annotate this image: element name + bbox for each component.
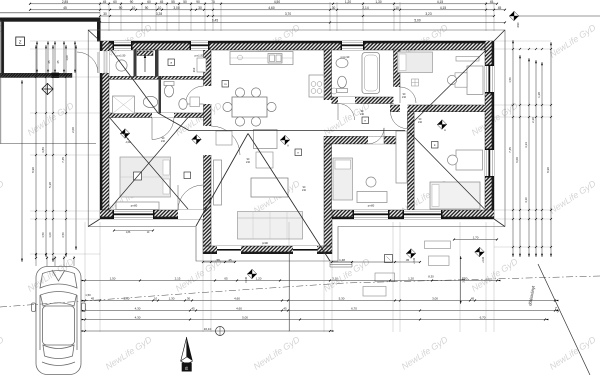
svg-text:8,30: 8,30	[428, 275, 434, 279]
svg-text:16,10: 16,10	[204, 327, 212, 331]
svg-text:4,10: 4,10	[524, 197, 528, 203]
svg-text:210: 210	[402, 96, 407, 99]
svg-text:65: 65	[224, 277, 228, 281]
top bath toilet	[338, 76, 347, 88]
bottom dim row 1	[85, 280, 497, 282]
interior wall right rooms divider W9	[408, 105, 487, 112]
window bottom-left wide	[114, 210, 153, 219]
svg-text:45: 45	[63, 6, 67, 10]
bedroom center-bottom desk	[357, 192, 387, 203]
roof line vestibule diagonal	[111, 50, 158, 113]
yard fence line below carport	[0, 143, 96, 145]
roof eave outline	[88, 30, 505, 261]
svg-text:50: 50	[183, 0, 187, 4]
center bathroom bottom wall W6b	[332, 97, 394, 104]
svg-text:45: 45	[47, 60, 51, 64]
porch gable left slope	[196, 134, 248, 227]
svg-text:45: 45	[56, 60, 60, 64]
roof eave corner diagonal top-left	[88, 30, 100, 41]
dining chairs	[235, 88, 244, 97]
svg-text:4,15: 4,15	[437, 0, 443, 4]
carport top wall	[0, 18, 100, 22]
top bath washbasin	[336, 58, 348, 68]
interior wall dining right / bath left upper	[324, 50, 332, 100]
svg-text:1,50: 1,50	[462, 277, 468, 281]
svg-text:3,86: 3,86	[41, 147, 45, 153]
svg-text:Ø10: Ø10	[193, 67, 196, 72]
svg-text:3,00: 3,00	[432, 297, 438, 301]
window top wall 1	[114, 41, 131, 50]
bedroom top-right desk	[455, 73, 467, 87]
svg-text:90: 90	[196, 0, 200, 4]
svg-text:+0,00: +0,00	[482, 256, 485, 263]
svg-text:É: É	[185, 365, 188, 371]
carport eave line	[0, 12, 100, 14]
bedroom bottom-right bed	[430, 182, 480, 209]
exterior wall bottom-right segment	[331, 210, 494, 219]
bedroom top-right bed	[398, 52, 433, 73]
svg-text:1,50: 1,50	[110, 277, 116, 281]
svg-text:pm1,90: pm1,90	[195, 54, 204, 58]
closet arrow	[144, 54, 146, 72]
vestibule washbasin	[116, 60, 127, 71]
dim 1,70 right	[454, 239, 497, 241]
svg-text:3,50: 3,50	[61, 232, 65, 238]
svg-text:30: 30	[332, 6, 336, 10]
bottom witness lines	[84, 222, 86, 332]
north arrow	[181, 337, 187, 361]
bedroom top-right grid box	[412, 79, 419, 86]
closet top block	[137, 51, 153, 56]
survey marker hall	[192, 135, 202, 145]
svg-text:pm1,90: pm1,90	[117, 54, 126, 58]
wc room shelf	[197, 58, 206, 72]
hall box symbol	[184, 172, 191, 179]
interior wall hall/dining upper	[204, 50, 212, 86]
svg-text:210: 210	[161, 140, 166, 143]
exterior wall top	[100, 41, 494, 50]
interior wall lower divider W8b	[408, 112, 415, 211]
svg-text:3,28: 3,28	[156, 12, 162, 16]
porch wall bottom	[203, 246, 332, 254]
dim 3,50 vertical right terrace	[460, 256, 462, 304]
svg-text:1,20: 1,20	[408, 277, 414, 281]
interior wall vestibule bottom	[109, 76, 204, 79]
svg-text:6,70: 6,70	[480, 316, 486, 320]
center bedroom wardrobe	[396, 131, 407, 183]
svg-text:4,50: 4,50	[274, 0, 280, 4]
kitchen sink	[268, 54, 282, 64]
porch wall left	[203, 210, 211, 254]
plot boundary bottom-right	[538, 264, 590, 375]
svg-text:3,70: 3,70	[285, 12, 291, 16]
roof eave corner diagonal top-right	[494, 30, 505, 41]
svg-text:10: 10	[395, 6, 399, 10]
bottom dim row 5	[85, 330, 330, 332]
Z marker box	[16, 37, 25, 46]
door arc right divider	[391, 112, 408, 129]
window bottom-right 1	[354, 210, 388, 219]
bedroom top-right chair	[447, 75, 456, 84]
dining table	[232, 97, 267, 117]
svg-text:55: 55	[171, 0, 175, 4]
kitchen stove circles	[311, 82, 316, 87]
svg-text:5,30: 5,30	[339, 297, 345, 301]
top dimension chain row 2	[30, 9, 505, 11]
svg-text:45: 45	[283, 307, 287, 311]
svg-text:2,14: 2,14	[362, 6, 368, 10]
bedroom center-bottom chair	[366, 177, 376, 187]
svg-text:1,50: 1,50	[41, 232, 45, 238]
door arc center bedroom	[368, 128, 384, 144]
interior wall bathroom/bedroom left block	[109, 113, 204, 118]
carport-house connecting wall	[97, 18, 101, 42]
svg-text:pm1,90: pm1,90	[341, 55, 350, 59]
svg-text:±0,00: ±0,00	[245, 276, 248, 283]
svg-text:Z: Z	[19, 40, 22, 45]
svg-text:1,86: 1,86	[126, 232, 131, 234]
carport column marker	[42, 83, 53, 94]
svg-text:1,30: 1,30	[375, 0, 381, 4]
top dimension chain row 4	[100, 22, 505, 24]
left witness lines	[30, 40, 100, 42]
svg-text:4,30: 4,30	[135, 307, 141, 311]
svg-text:3,10: 3,10	[332, 277, 338, 281]
exterior wall right	[485, 41, 494, 219]
interior wall living door gap arc	[211, 126, 240, 155]
porch wall right	[324, 210, 332, 254]
svg-text:3,23: 3,23	[425, 12, 431, 16]
window top wall 3	[342, 41, 363, 50]
bathroom shower	[113, 96, 135, 114]
bathtub	[362, 53, 380, 94]
interior wall closet/hall divider	[155, 50, 159, 76]
svg-text:45: 45	[490, 0, 494, 4]
bathroom toilet	[164, 85, 173, 97]
svg-text:210: 210	[360, 113, 365, 116]
window bottom-right 2	[404, 210, 441, 219]
svg-text:1,70: 1,70	[473, 236, 479, 240]
svg-text:8,90: 8,90	[31, 167, 35, 173]
svg-text:pm90: pm90	[368, 204, 375, 208]
interior wall hall right divider	[159, 76, 162, 113]
entry door swing arc	[77, 52, 98, 73]
bedroom top-right wall unit	[467, 66, 483, 95]
svg-text:4,60: 4,60	[236, 307, 242, 311]
kitchen hob dot	[238, 55, 243, 60]
interior wall center bedroom top	[324, 136, 408, 144]
svg-text:2,60: 2,60	[124, 297, 130, 301]
svg-text:8,90: 8,90	[546, 167, 550, 173]
terrace table set center	[375, 273, 395, 282]
car top view	[32, 267, 86, 375]
kitchen counter	[230, 52, 293, 65]
washing machine	[190, 97, 200, 107]
interior wall vestibule/closet divider	[134, 50, 137, 76]
carport column block	[52, 73, 60, 78]
room diagonal top-right bedroom	[407, 50, 486, 128]
svg-text:45: 45	[103, 0, 107, 4]
svg-text:A: A	[444, 128, 446, 132]
right horizontal survey line	[518, 15, 600, 17]
bathroom bidet	[179, 99, 187, 110]
bedroom left-bottom wardrobe	[116, 202, 159, 210]
svg-text:2,15: 2,15	[175, 277, 181, 281]
svg-text:30: 30	[103, 12, 107, 16]
svg-text:4,30: 4,30	[135, 316, 141, 320]
svg-text:90: 90	[119, 6, 123, 10]
bedroom bottom-right desk	[456, 150, 483, 170]
survey marker terrace 3	[475, 247, 485, 257]
svg-text:4,60: 4,60	[268, 6, 274, 10]
roof eave corner diagonal bottom-right	[494, 219, 505, 227]
svg-text:2,85: 2,85	[62, 0, 68, 4]
svg-text:pm90: pm90	[262, 242, 269, 245]
svg-text:90: 90	[145, 6, 149, 10]
survey marker bedroom left	[120, 129, 130, 139]
svg-text:10: 10	[132, 6, 136, 10]
svg-text:210: 210	[302, 189, 307, 192]
svg-text:5,00: 5,00	[414, 19, 420, 23]
living sofa	[238, 212, 303, 240]
carport interior edge lines	[0, 21, 100, 23]
living tv cabinet	[214, 160, 222, 205]
exterior wall left	[100, 41, 109, 219]
survey marker top-right with label	[509, 11, 519, 21]
bedroom top-right shelf	[456, 57, 479, 62]
living coffee table small	[256, 152, 273, 168]
right witness lines	[494, 40, 551, 42]
svg-text:10: 10	[158, 6, 162, 10]
survey marker terrace 1	[247, 269, 257, 279]
svg-text:1,00: 1,00	[48, 232, 52, 238]
svg-text:45: 45	[191, 307, 195, 311]
living sideboard	[254, 130, 278, 149]
interior wall living right	[324, 136, 332, 210]
survey marker right	[437, 120, 447, 130]
bottom dim row 2	[85, 300, 555, 302]
svg-text:1,20: 1,20	[345, 0, 351, 4]
door label boxes	[168, 59, 175, 66]
window top wall 2	[191, 41, 208, 50]
svg-text:210: 210	[418, 121, 423, 124]
terrace steps	[330, 261, 352, 263]
dim vertical porch center	[289, 254, 291, 331]
door top-right room	[400, 87, 416, 103]
svg-text:Ø30: Ø30	[516, 22, 520, 27]
window right wall 2	[485, 150, 494, 176]
interior wall living left	[204, 155, 212, 210]
carport internal dimension lines	[36, 41, 38, 73]
svg-text:2,30: 2,30	[531, 117, 535, 123]
right dimension chains	[512, 40, 514, 257]
top dimension chain row 1	[30, 3, 497, 5]
svg-text:30: 30	[198, 6, 202, 10]
svg-text:+0,00: +0,00	[413, 257, 416, 264]
svg-text:30: 30	[187, 297, 191, 301]
exterior wall bottom-left segment	[100, 210, 211, 219]
living rug table	[251, 178, 288, 197]
door arc dining-hall	[186, 86, 204, 104]
bottom-left door opening	[178, 210, 203, 219]
svg-text:1,48: 1,48	[339, 258, 345, 262]
svg-text:2,00: 2,00	[71, 127, 75, 133]
bottom dim row 4	[85, 319, 545, 321]
svg-text:6,00: 6,00	[515, 157, 519, 163]
svg-text:7,45: 7,45	[508, 147, 512, 153]
bedroom ceiling diagonal 1	[110, 118, 189, 210]
svg-text:-0,02: -0,02	[125, 141, 131, 144]
svg-text:1,00: 1,00	[65, 55, 69, 61]
bathroom washbasin	[143, 96, 157, 107]
survey marker dining	[280, 135, 290, 145]
bedroom bottom-right chair	[448, 155, 458, 165]
terrace dim row small	[203, 261, 235, 263]
roof eave corner diagonal bottom-left	[88, 219, 100, 227]
svg-text:7,45: 7,45	[61, 157, 65, 163]
kitchen tall unit	[309, 75, 324, 97]
porch window 1	[217, 246, 241, 254]
svg-text:210: 210	[246, 161, 251, 164]
bottom dim row 3	[85, 310, 555, 312]
roof line hall connector	[158, 113, 189, 131]
porch gable right slope	[248, 134, 330, 262]
svg-text:45: 45	[228, 258, 232, 262]
svg-text:A: A	[287, 144, 289, 148]
interior wall upper divider W8a	[394, 50, 401, 87]
top witness lines	[99, 2, 101, 31]
svg-text:45: 45	[471, 297, 475, 301]
window right wall 1	[485, 66, 494, 92]
top bath boiler circles	[331, 88, 337, 94]
svg-text:90: 90	[130, 0, 134, 4]
slope direction dashed line	[0, 276, 600, 307]
svg-text:5,38: 5,38	[48, 182, 52, 188]
terrace box symbol	[385, 255, 393, 263]
svg-text:45: 45	[160, 0, 164, 4]
living armchair	[216, 131, 232, 145]
porch window 2	[293, 246, 317, 254]
bedroom center-bottom bed	[333, 158, 353, 200]
room diagonal bottom-right bedroom	[409, 132, 485, 209]
svg-text:1,20: 1,20	[256, 277, 262, 281]
svg-text:6,70: 6,70	[351, 307, 357, 311]
svg-text:30: 30	[216, 258, 220, 262]
carport left wall	[1, 18, 4, 78]
svg-text:60: 60	[113, 0, 117, 4]
bedroom left-bottom double bed	[120, 157, 171, 197]
utility circle marker	[216, 327, 225, 336]
svg-text:1,30: 1,30	[169, 297, 175, 301]
carport bottom wall	[0, 73, 72, 77]
svg-text:4,60: 4,60	[234, 297, 240, 301]
svg-text:5,00: 5,00	[242, 316, 248, 320]
svg-text:4,15: 4,15	[440, 6, 446, 10]
svg-text:pm90: pm90	[131, 204, 138, 208]
survey marker terrace 2	[406, 249, 416, 259]
roof ridge line	[189, 130, 405, 132]
entry door opening	[100, 51, 109, 73]
left dimension chains	[21, 80, 23, 262]
top dimension chain row 3	[100, 15, 494, 17]
svg-text:3,33: 3,33	[524, 142, 528, 148]
terrace table set right	[425, 241, 451, 249]
svg-text:10: 10	[154, 297, 158, 301]
bedroom ceiling diagonal 2	[110, 118, 189, 210]
svg-text:45: 45	[91, 297, 95, 301]
svg-text:60: 60	[147, 0, 151, 4]
svg-text:45: 45	[406, 258, 410, 262]
svg-text:1,28: 1,28	[537, 92, 541, 98]
svg-text:45: 45	[498, 6, 502, 10]
car dimension ticks	[35, 256, 37, 266]
svg-text:1,50: 1,50	[508, 77, 512, 83]
